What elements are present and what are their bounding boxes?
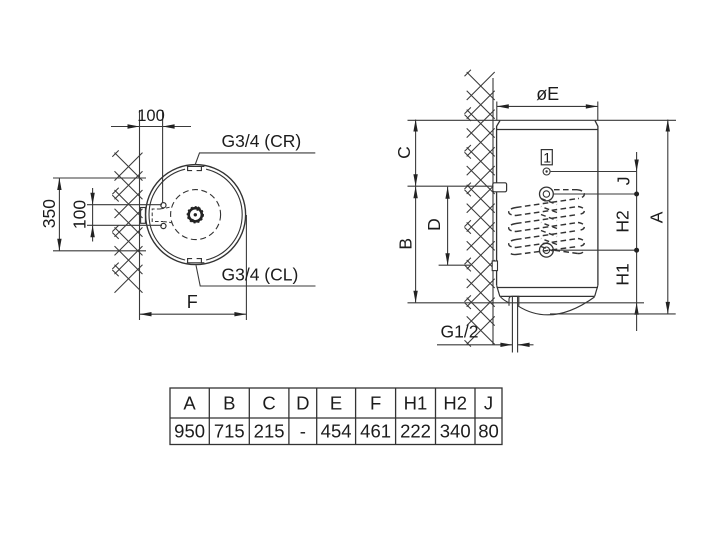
top tab G3/4 CR xyxy=(187,166,205,171)
dim C arrow up xyxy=(413,120,417,132)
svg-text:C: C xyxy=(394,146,414,159)
wire extension line x=162.6 xyxy=(162,110,164,203)
label G3/4 (CR) leader xyxy=(195,153,315,164)
dim oE line xyxy=(497,105,598,107)
thermostat circle xyxy=(543,168,550,175)
svg-text:B: B xyxy=(223,393,235,414)
dim F arrow left xyxy=(140,312,152,316)
dim 350: extension line top xyxy=(53,177,146,179)
dim H1 arrow up (below bottom line) xyxy=(634,303,638,315)
dim oE arrow left xyxy=(497,104,509,108)
dim C/B vertical line xyxy=(415,120,417,303)
svg-text:340: 340 xyxy=(440,421,471,442)
dim oE arrow right xyxy=(586,104,598,108)
upper coil port xyxy=(540,187,554,201)
tank bottom dome xyxy=(501,297,595,315)
dim 350 arrow down xyxy=(57,239,61,251)
dim 350: extension line bottom xyxy=(53,250,146,252)
table row separator xyxy=(170,417,502,419)
dim A arrow down xyxy=(666,302,670,314)
svg-text:100: 100 xyxy=(137,107,165,125)
dim G1/2 line right with left arrow xyxy=(518,344,534,346)
heat exchanger coil: right bends (dashed) xyxy=(577,190,584,254)
inner tank circle (gaps at tabs) xyxy=(149,169,242,260)
svg-text:C: C xyxy=(262,393,275,414)
wall hatching (side view) xyxy=(465,70,495,347)
dim J arrow down (above thermostat line) xyxy=(634,160,638,172)
dim F extension line right xyxy=(245,215,247,320)
svg-text:H1: H1 xyxy=(404,393,428,414)
dim A arrow up xyxy=(666,120,670,132)
dim 100 top arrow right-pointing xyxy=(128,124,140,128)
heat exchanger coil: left bends (dashed) xyxy=(509,208,516,255)
svg-text:100: 100 xyxy=(70,200,90,229)
tank top seam xyxy=(497,129,598,131)
dim B arrow up xyxy=(413,186,417,198)
wall surface line xyxy=(492,78,494,345)
svg-text:350: 350 xyxy=(39,199,59,228)
bracket hole bottom (solid hook) xyxy=(161,223,166,228)
svg-text:-: - xyxy=(300,421,306,442)
svg-text:715: 715 xyxy=(214,421,245,442)
upper wall bracket xyxy=(493,183,507,192)
svg-text:222: 222 xyxy=(400,421,431,442)
tank bottom seam xyxy=(497,287,598,289)
lower coil port xyxy=(540,243,554,257)
svg-text:454: 454 xyxy=(321,421,352,442)
drain pipe xyxy=(511,297,513,353)
upper port reference line xyxy=(554,193,637,195)
dim 350 arrow up xyxy=(57,178,61,190)
dim D reference line xyxy=(439,264,470,266)
svg-text:D: D xyxy=(296,393,309,414)
dim oE extension lines xyxy=(496,102,498,121)
svg-text:H2: H2 xyxy=(613,210,633,232)
drain fitting xyxy=(509,296,519,306)
dim D arrow down xyxy=(445,253,449,265)
thermostat reference line xyxy=(551,171,637,173)
tank bottom cap xyxy=(497,285,598,296)
bracket edge (solid, at wall) xyxy=(141,208,146,224)
label G3/4 (CL) leader xyxy=(196,265,316,286)
lower port reference line xyxy=(554,249,637,251)
tank body xyxy=(497,121,598,286)
svg-text:G1/2: G1/2 xyxy=(441,322,479,342)
svg-text:G3/4 (CL): G3/4 (CL) xyxy=(222,265,299,285)
svg-text:215: 215 xyxy=(254,421,285,442)
bottom extension line (dome apex) xyxy=(550,313,676,315)
node dot at lower port line xyxy=(634,248,639,253)
dim 100 vert arrow down (above) xyxy=(90,193,94,205)
svg-text:461: 461 xyxy=(360,421,391,442)
node dot at upper port line xyxy=(634,192,639,197)
dim D arrow up xyxy=(445,187,449,199)
svg-text:80: 80 xyxy=(478,421,499,442)
bracket reference line xyxy=(408,185,494,187)
lower wall bracket xyxy=(492,261,497,271)
table column separators xyxy=(208,388,210,445)
svg-text:1: 1 xyxy=(543,149,551,165)
svg-text:E: E xyxy=(330,393,342,414)
svg-text:A: A xyxy=(647,211,667,223)
dim 350: vertical line xyxy=(58,178,60,251)
svg-text:F: F xyxy=(370,393,381,414)
svg-text:B: B xyxy=(395,238,415,250)
bottom tab G3/4 CL xyxy=(187,259,205,264)
bottom reference line xyxy=(408,302,645,304)
dim G1/2 line left with right arrow xyxy=(437,344,512,346)
dim A vertical line xyxy=(667,120,669,314)
bracket keyhole (dashed) xyxy=(152,207,171,223)
heat exchanger coil: front strands (dashed) xyxy=(516,190,578,255)
heat exchanger coil: rear strand zigzag (dashed) xyxy=(541,199,557,252)
dim 100 vert: extension line bottom xyxy=(87,224,162,226)
dim F arrow right xyxy=(234,312,246,316)
dim 100 vert: extension line top xyxy=(87,204,162,206)
svg-text:F: F xyxy=(187,292,198,312)
wire wall surface / extension line x=139.5 xyxy=(139,110,141,320)
svg-text:A: A xyxy=(183,393,196,414)
svg-text:øE: øE xyxy=(536,84,559,104)
dim D vertical line xyxy=(447,187,449,266)
svg-text:G3/4 (CR): G3/4 (CR) xyxy=(222,131,302,151)
svg-text:H2: H2 xyxy=(443,393,467,414)
bracket hole top (solid hook) xyxy=(161,203,166,208)
dim 100 vert arrow up (below) xyxy=(90,225,94,237)
dim B arrow down xyxy=(413,291,417,303)
dim column J/H2/H1 line xyxy=(636,152,638,303)
thermostat indicator box 1 xyxy=(541,150,552,165)
svg-text:J: J xyxy=(614,177,634,186)
table frame xyxy=(170,388,502,445)
svg-text:D: D xyxy=(424,218,444,231)
dim 100 top: line xyxy=(111,126,191,128)
dim 100 top arrow left-pointing xyxy=(163,124,175,128)
hub (center plug) xyxy=(189,208,202,221)
svg-text:J: J xyxy=(484,393,493,414)
dim F: line xyxy=(140,313,247,315)
svg-text:H1: H1 xyxy=(613,263,633,285)
top reference line (collinear with tank top) xyxy=(408,119,677,121)
dashed inner circle xyxy=(171,190,221,240)
svg-text:950: 950 xyxy=(174,421,205,442)
table value row xyxy=(174,421,499,442)
wall hatching (left view) xyxy=(112,150,142,292)
dim 100 vert: vertical line xyxy=(92,188,94,242)
outer tank circle (top view) xyxy=(146,165,246,265)
table header row xyxy=(183,393,493,414)
dim C arrow down xyxy=(413,174,417,186)
